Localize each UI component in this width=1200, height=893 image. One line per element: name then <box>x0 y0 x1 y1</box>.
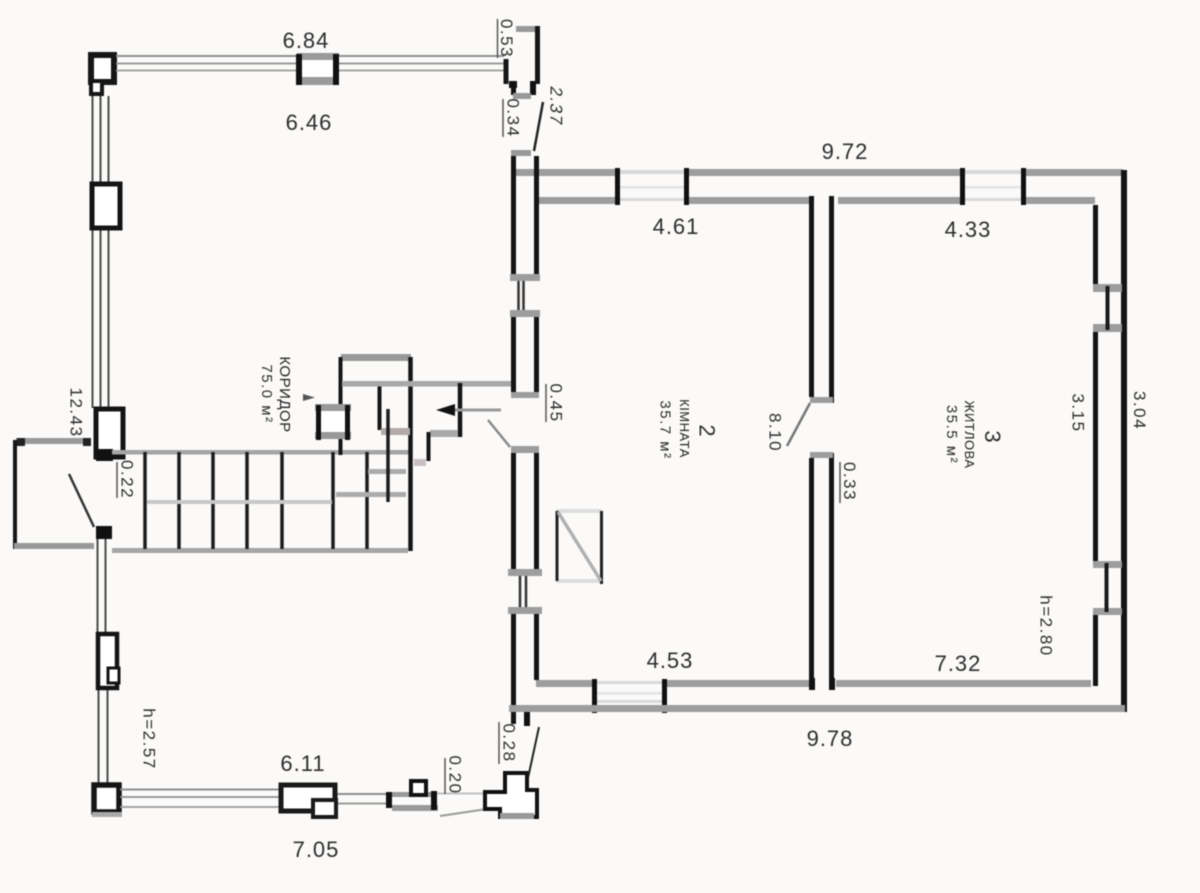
door leaf into corridor <box>488 420 510 447</box>
svg-text:КІМНАТА: КІМНАТА <box>677 399 692 458</box>
svg-text:4.33: 4.33 <box>945 217 992 242</box>
svg-text:6.84: 6.84 <box>283 28 330 53</box>
chimney box on wall <box>318 408 348 436</box>
stairs bottom edge <box>112 548 408 553</box>
partition wall stub 2 <box>427 432 431 461</box>
vestibule top wall <box>516 26 536 32</box>
svg-text:0.22: 0.22 <box>118 460 137 499</box>
window glazing top wall 2 <box>963 170 1023 174</box>
svg-text:6.46: 6.46 <box>286 110 333 135</box>
svg-text:4.53: 4.53 <box>647 648 694 673</box>
svg-text:3.15: 3.15 <box>1069 393 1088 432</box>
dim 0.20 rotated <box>444 758 446 794</box>
vestibule tick 0.53 <box>497 19 499 58</box>
svg-text:12.43: 12.43 <box>67 387 86 437</box>
window glazing top wall 1 <box>618 170 686 174</box>
svg-text:0.45: 0.45 <box>547 383 566 422</box>
window jambs top wall <box>615 168 620 205</box>
dim 0.28 rotated <box>498 722 500 764</box>
svg-text:7.32: 7.32 <box>935 651 982 676</box>
svg-text:ЖИТЛОВА: ЖИТЛОВА <box>962 400 977 468</box>
svg-text:2: 2 <box>695 424 720 436</box>
dim 0.34 rotated <box>502 99 504 137</box>
svg-text:0.53: 0.53 <box>497 19 516 58</box>
window W2 left wall <box>96 409 123 457</box>
door jambs annex <box>96 449 113 461</box>
svg-text:h=2.57: h=2.57 <box>140 708 159 769</box>
svg-text:2.37: 2.37 <box>547 85 567 128</box>
middle wall right line <box>829 196 834 403</box>
stair partial tread wall <box>386 409 390 502</box>
stairs landing lines <box>336 492 406 497</box>
svg-text:4.61: 4.61 <box>653 214 700 239</box>
wall bottom of left building (thin lines) <box>120 789 281 791</box>
dim 0.33 rotated <box>839 462 841 503</box>
annex bottom wall <box>14 543 94 549</box>
dim 0.22 rotated <box>116 462 118 498</box>
middle wall left line <box>809 196 814 397</box>
wall top of left building (thin lines) <box>116 55 297 57</box>
svg-text:35.5 м²: 35.5 м² <box>943 405 960 464</box>
svg-text:h=2.80: h=2.80 <box>1037 595 1056 656</box>
right wall inner <box>1093 205 1098 686</box>
right building top wall outer <box>512 169 618 176</box>
vestibule left wall <box>504 59 509 84</box>
closet inner cap <box>381 428 410 435</box>
right building top wall inner <box>536 197 615 204</box>
leader line 0.20 <box>440 809 487 816</box>
cap top of right building left wall <box>511 150 531 156</box>
window right wall upper <box>1093 284 1122 292</box>
vestibule threshold <box>513 93 531 99</box>
porch bottom (plus-shaped) <box>485 773 537 817</box>
door caps left wall <box>511 392 539 398</box>
closet inner wall <box>378 383 382 430</box>
svg-text:3.04: 3.04 <box>1130 391 1149 430</box>
wall stub below bottom wall of right building <box>524 709 530 726</box>
svg-text:35.7 м²: 35.7 м² <box>657 400 674 459</box>
svg-text:КОРИДОР: КОРИДОР <box>276 356 293 432</box>
wall stub T near bottom wall end <box>386 792 392 808</box>
svg-text:7.05: 7.05 <box>293 837 340 862</box>
stairs treads <box>145 452 367 549</box>
window in top wall <box>299 57 335 81</box>
right wall outer <box>1121 170 1127 712</box>
stairs top edge <box>112 450 410 455</box>
bottom wall window glazing <box>597 681 662 684</box>
partition wall stub <box>458 383 463 437</box>
vestibule bottom jamb left <box>509 81 517 88</box>
wire thin link to porch <box>437 793 489 795</box>
corridor north wall band <box>342 381 512 387</box>
left wall outer of right building <box>514 156 537 724</box>
closet right wall / stair side wall <box>408 357 413 551</box>
middle wall door caps <box>810 397 833 403</box>
closet top wall <box>341 354 411 361</box>
small arrow tick <box>303 394 315 401</box>
svg-text:6.11: 6.11 <box>280 751 325 776</box>
door leaf annex <box>69 474 94 527</box>
middle wall door leaf <box>787 403 810 446</box>
bottom wall outer <box>509 705 1125 712</box>
entrance arrow <box>436 404 455 416</box>
svg-text:0.34: 0.34 <box>504 98 523 137</box>
svg-text:0.33: 0.33 <box>840 462 859 501</box>
window W1 left wall <box>92 184 120 228</box>
vestibule bottom jamb right <box>530 81 536 95</box>
svg-text:0.20: 0.20 <box>446 755 465 794</box>
vestibule door leaf <box>534 102 543 151</box>
stove box with diagonal <box>556 509 602 513</box>
window W3 left wall <box>98 634 117 688</box>
wall corner block bottom-left <box>94 785 119 812</box>
svg-text:8.10: 8.10 <box>766 413 785 452</box>
middle wall bottom caps <box>809 678 815 690</box>
vestibule right wall <box>535 26 540 84</box>
leader line 0.28 <box>528 727 539 778</box>
partition cap 2 <box>414 459 426 466</box>
window in bottom wall <box>281 785 335 811</box>
stairs mid line <box>147 500 332 504</box>
svg-text:0.28: 0.28 <box>500 723 519 762</box>
wall left of left building (thin lines) <box>93 96 109 783</box>
bottom wall window jambs <box>592 679 597 713</box>
svg-text:75.0 м²: 75.0 м² <box>258 364 275 423</box>
bottom wall inner <box>536 680 592 687</box>
annex left: top wall <box>16 438 91 444</box>
partition cap <box>430 430 458 437</box>
svg-text:9.78: 9.78 <box>807 726 854 751</box>
annex left wall <box>13 440 17 549</box>
closet left wall <box>339 357 343 455</box>
svg-text:9.72: 9.72 <box>822 139 869 164</box>
window left wall upper <box>510 274 540 281</box>
wall corner block top-left <box>91 55 114 82</box>
window right wall lower <box>1093 561 1122 568</box>
svg-text:3: 3 <box>980 430 1005 442</box>
window left wall lower <box>508 569 542 576</box>
dim 0.45 rotated <box>545 384 547 422</box>
